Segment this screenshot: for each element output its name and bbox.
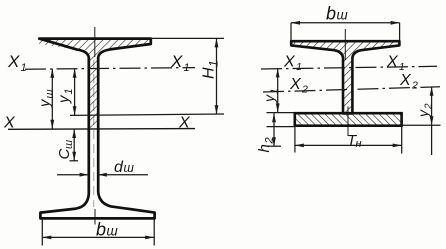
svg-text:ш: ш <box>337 8 348 23</box>
label U1 (rotated, right figure) <box>261 88 281 103</box>
dimension Tn line with arrows <box>295 143 402 147</box>
svg-text:H: H <box>201 67 218 79</box>
label bsh bottom <box>96 220 118 240</box>
extension line from beam top for H1 <box>151 37 224 39</box>
svg-text:ш: ш <box>44 89 56 98</box>
svg-text:2: 2 <box>424 103 435 110</box>
label X right <box>178 115 191 132</box>
left beam outline (I-beam contour) <box>39 39 154 219</box>
label Csh (rotated) <box>56 140 75 160</box>
svg-text:н: н <box>356 138 362 150</box>
axis X-X of left figure <box>8 128 195 131</box>
extension lines for Tn dimension <box>295 126 402 154</box>
dimension dsh lines with arrows pointing at web <box>57 173 148 177</box>
center line tick top of left beam <box>94 27 96 57</box>
center line tick through plate <box>347 107 349 137</box>
svg-text:d: d <box>114 159 124 176</box>
axis X2-X2 of right figure (chain line) <box>263 87 440 92</box>
svg-text:b: b <box>326 4 336 24</box>
dimension U1 line with arrows (right figure) <box>276 68 280 112</box>
label X1 right (right figure) <box>386 54 405 74</box>
svg-text:X: X <box>7 52 20 71</box>
label X2 left (right figure) <box>289 76 308 96</box>
label X1 left (right figure) <box>283 54 302 74</box>
right tee hatched section (flange + web) <box>291 41 399 113</box>
right tee outline <box>291 41 399 113</box>
left beam hatched upper section (flange + web to X axis) <box>39 39 151 129</box>
svg-text:1: 1 <box>296 61 302 73</box>
label U2 (rotated) <box>415 103 435 118</box>
label U1 (rotated, left figure) <box>56 88 76 104</box>
svg-text:2: 2 <box>411 80 418 92</box>
svg-text:y: y <box>261 94 277 103</box>
label Ush (rotated) <box>37 89 57 108</box>
svg-text:h: h <box>256 144 273 152</box>
dimension U2 line with arrows <box>430 87 434 155</box>
svg-text:y: y <box>56 94 73 104</box>
label Tn <box>347 132 362 150</box>
label X2 right (right figure) <box>399 72 418 92</box>
axis X1-X1 of right figure (chain line) <box>261 66 437 69</box>
label X1 right (left figure) <box>170 52 190 74</box>
dimension Csh line with arrows <box>72 129 76 161</box>
dimension Ush line with arrows <box>50 69 54 129</box>
label X left <box>3 115 16 132</box>
dimension U1 line with arrows (left figure) <box>73 69 77 116</box>
svg-text:ш: ш <box>107 224 118 239</box>
svg-text:X: X <box>3 115 16 132</box>
centroid line of upper half-section <box>70 114 224 115</box>
svg-text:y: y <box>415 109 431 118</box>
label X1 left (left figure) <box>7 52 27 74</box>
extension lines for bottom bsh dimension <box>42 220 154 246</box>
svg-text:b: b <box>96 220 106 240</box>
svg-text:1: 1 <box>63 88 75 94</box>
dimension bsh bottom line with arrows <box>42 235 154 239</box>
svg-text:X: X <box>399 72 412 89</box>
plate (hatched) under the tee <box>295 113 402 126</box>
dimension h2 line with arrows <box>272 113 276 146</box>
label H1 (rotated) <box>201 60 221 79</box>
svg-text:1: 1 <box>21 62 27 74</box>
label h2 (rotated) <box>256 137 276 152</box>
center line of left beam (faint) <box>93 60 95 207</box>
svg-text:C: C <box>56 149 73 160</box>
svg-text:y: y <box>37 98 54 108</box>
axis X1-X1 of left figure (chain line) <box>25 68 195 70</box>
extension line at plate bottom to the left <box>267 126 295 128</box>
tick at bottom of Csh dimension <box>70 160 79 162</box>
tick at bottom of h2 dimension <box>268 145 282 147</box>
svg-text:X: X <box>178 115 191 132</box>
extension line at plate top to the left <box>267 112 295 114</box>
dimension H1 line with arrows <box>215 38 219 114</box>
svg-text:ш: ш <box>124 161 135 175</box>
dimension bsh top line with arrows (right figure) <box>291 21 400 25</box>
extension lines for top bsh dimension (right figure) <box>291 23 400 41</box>
svg-text:ш: ш <box>63 140 75 149</box>
svg-text:X: X <box>289 76 302 93</box>
center line tick top of right tee <box>344 29 346 60</box>
label dsh <box>114 159 135 176</box>
svg-text:1: 1 <box>270 88 281 94</box>
svg-text:1: 1 <box>184 62 190 74</box>
svg-text:X: X <box>283 54 296 71</box>
svg-text:2: 2 <box>264 137 276 144</box>
extension line at plate bottom to the right for U2 <box>402 124 441 126</box>
label bsh top (right figure) <box>326 4 348 24</box>
svg-text:2: 2 <box>301 84 308 96</box>
svg-text:1: 1 <box>207 60 221 67</box>
svg-text:X: X <box>170 52 183 71</box>
center line tick bottom of left beam <box>94 209 96 225</box>
svg-text:X: X <box>386 54 399 71</box>
